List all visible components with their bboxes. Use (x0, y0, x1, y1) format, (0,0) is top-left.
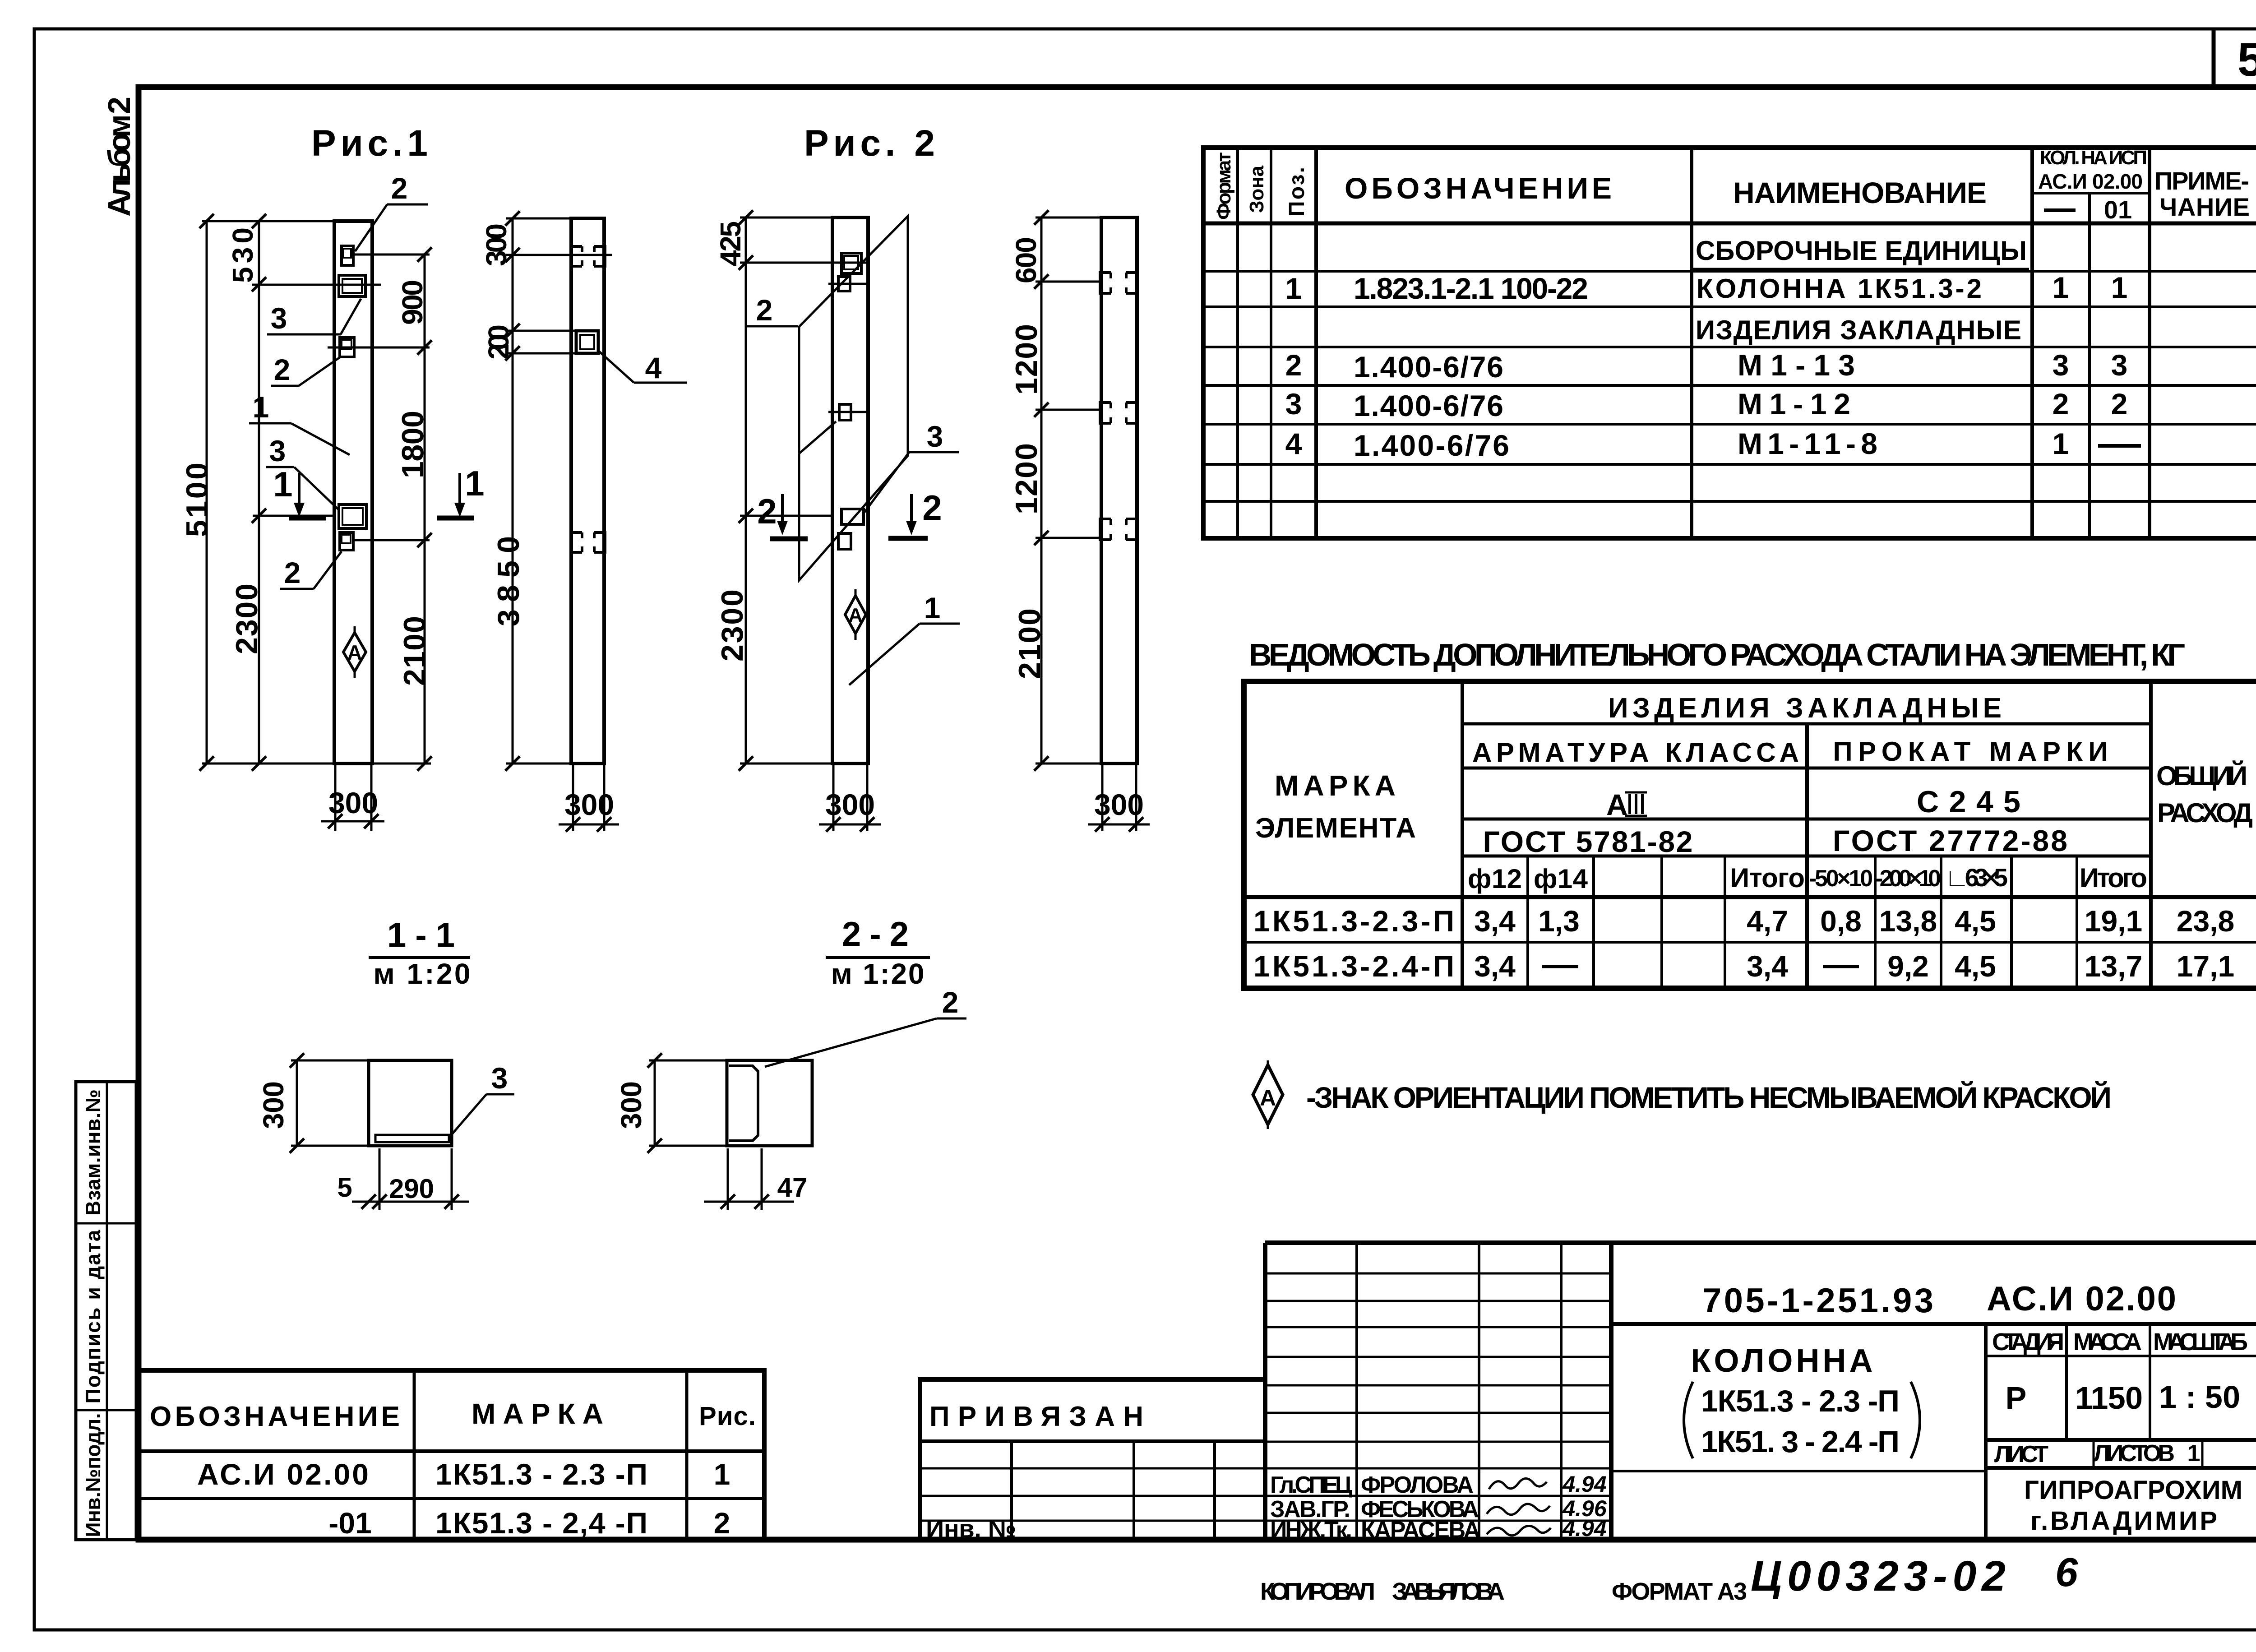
svg-text:300: 300 (564, 788, 614, 821)
fig1 side dim chain 300 200 3850 (480, 211, 526, 771)
svg-text:КАРАСЕВА: КАРАСЕВА (1361, 1517, 1480, 1543)
svg-text:КОПИРОВАЛ: КОПИРОВАЛ (1260, 1578, 1375, 1605)
title block stamp grid (1265, 1243, 2256, 1540)
svg-text:4.94: 4.94 (1562, 1472, 1606, 1497)
svg-text:ОБЩИЙ: ОБЩИЙ (2156, 761, 2247, 791)
section 1-1 square (369, 1060, 452, 1146)
svg-text:600: 600 (1010, 237, 1042, 283)
svg-text:ф12: ф12 (1468, 864, 1522, 894)
fig1 dim 5100 (180, 214, 214, 771)
section 2-2 title (826, 915, 930, 990)
binding table (920, 1379, 1265, 1543)
specification row 4 (1285, 427, 2141, 462)
fig1 extension lines (202, 221, 431, 764)
steel table frame (1244, 681, 2256, 988)
svg-text:2: 2 (284, 556, 301, 589)
fig1 side plate pair lower (571, 532, 605, 552)
svg-text:г.ВЛАДИМИР: г.ВЛАДИМИР (2030, 1506, 2220, 1536)
svg-text:1: 1 (465, 463, 484, 503)
svg-text:НАИМЕНОВАНИЕ: НАИМЕНОВАНИЕ (1733, 176, 1990, 209)
orientation note text (1306, 1080, 2112, 1114)
svg-text:Р: Р (2006, 1380, 2027, 1416)
section 2-2 dim 300 (615, 1053, 727, 1153)
svg-text:ГИПРОАГРОХИМ: ГИПРОАГРОХИМ (2024, 1476, 2245, 1505)
svg-text:ЭЛЕМЕНТА: ЭЛЕМЕНТА (1255, 813, 1419, 844)
svg-text:МАСШТАБ: МАСШТАБ (2153, 1328, 2248, 1356)
fig1 side extension lines (506, 218, 612, 764)
svg-text:-50×10: -50×10 (1809, 865, 1873, 892)
copied by line (1260, 1578, 1747, 1605)
fig1 bottom dim 300 (321, 764, 384, 831)
svg-text:1: 1 (1285, 272, 1302, 305)
svg-text:Рис.1: Рис.1 (311, 123, 428, 164)
section 1-1 leader 3 (449, 1061, 514, 1137)
steel table data row 2 (1253, 949, 2234, 983)
svg-text:ЧАНИЕ: ЧАНИЕ (2159, 193, 2250, 221)
fig2 side bottom dim 300 (1088, 764, 1150, 832)
section 2-2 square (727, 1060, 812, 1146)
svg-text:300: 300 (825, 788, 875, 821)
svg-text:Зона: Зона (1246, 165, 1268, 213)
title block sheet row (1986, 1440, 2256, 1468)
fig2 plate small top (828, 277, 868, 291)
svg-text:Формат: Формат (1213, 152, 1235, 220)
svg-text:530: 530 (227, 227, 259, 283)
svg-text:м 1:20: м 1:20 (831, 958, 925, 990)
svg-text:3,4: 3,4 (1747, 949, 1788, 983)
title block organization (2024, 1476, 2245, 1536)
svg-text:ФРОЛОВА: ФРОЛОВА (1361, 1472, 1474, 1498)
svg-text:17,1: 17,1 (2177, 949, 2234, 983)
svg-text:Альбом 2: Альбом 2 (102, 97, 137, 217)
svg-text:1: 1 (2111, 271, 2128, 304)
svg-text:1.400-6/76: 1.400-6/76 (1354, 429, 1509, 462)
fig1 side view column (571, 218, 604, 764)
fig2 leader 1 (849, 591, 960, 685)
fig1 title (311, 123, 428, 164)
svg-text:2-2: 2-2 (842, 915, 909, 953)
svg-text:1: 1 (2053, 427, 2069, 460)
svg-text:1,3: 1,3 (1538, 904, 1580, 938)
left margin strip (76, 1082, 136, 1540)
steel table subheaders (1468, 863, 2147, 894)
section 1-1 dim 300 (257, 1053, 369, 1153)
svg-text:01: 01 (2104, 195, 2132, 224)
svg-text:23,8: 23,8 (2177, 904, 2234, 938)
svg-text:ИЗДЕЛИЯ ЗАКЛАДНЫЕ: ИЗДЕЛИЯ ЗАКЛАДНЫЕ (1608, 693, 2005, 724)
svg-text:АРМАТУРА КЛАССА: АРМАТУРА КЛАССА (1472, 737, 1802, 768)
fig1 leader 3 top (267, 299, 361, 335)
fig2 dim 425 / 2300 chain (714, 210, 753, 771)
fig1 leader 2 lower (280, 551, 342, 589)
specification row assembly units (1693, 236, 2029, 269)
svg-text:13,8: 13,8 (1879, 904, 1937, 938)
svg-text:1: 1 (2187, 1440, 2201, 1467)
fig2 title (804, 123, 935, 164)
svg-text:1: 1 (714, 1458, 730, 1491)
inventory handwriting (1751, 1550, 2078, 1600)
fig2 plate 2 top (841, 253, 861, 273)
svg-text:А: А (347, 641, 362, 664)
specification row 1 column (1285, 271, 2128, 305)
svg-text:Инв. №: Инв. № (926, 1514, 1016, 1543)
fig1 leader 4 (599, 351, 687, 384)
steel table title (1249, 637, 2185, 672)
fig1 front column outline (334, 221, 372, 764)
svg-text:2: 2 (942, 986, 959, 1019)
svg-text:2: 2 (391, 171, 408, 205)
svg-text:1800: 1800 (396, 411, 430, 478)
section 1-1 title (369, 916, 471, 990)
svg-text:1К51.3 - 2,4 -П: 1К51.3 - 2,4 -П (435, 1506, 647, 1540)
title block signature row engineer (1270, 1516, 1607, 1543)
svg-text:1К51. 3 - 2.4 -П: 1К51. 3 - 2.4 -П (1701, 1425, 1900, 1459)
svg-text:Подпись и дата: Подпись и дата (81, 1230, 105, 1403)
section 2-2 leader 2 (765, 986, 966, 1067)
orientation note diamond (1253, 1060, 1283, 1129)
svg-text:ПРИМЕ-: ПРИМЕ- (2154, 167, 2249, 195)
fig2 front column outline (832, 217, 868, 764)
svg-text:1: 1 (2053, 271, 2069, 304)
album label (102, 97, 137, 217)
svg-text:А: А (848, 604, 863, 626)
svg-text:4: 4 (1285, 427, 1302, 460)
fig2 side dim chain 600 1200 1200 2100 (1009, 210, 1049, 771)
svg-text:705-1-251.93: 705-1-251.93 (1702, 1282, 1933, 1320)
svg-text:Итого: Итого (1730, 863, 1805, 893)
svg-text:300: 300 (615, 1081, 647, 1129)
title block signature row chief (1270, 1472, 1607, 1498)
svg-text:4.94: 4.94 (1562, 1516, 1606, 1541)
svg-text:1.400-6/76: 1.400-6/76 (1354, 389, 1503, 422)
svg-text:2: 2 (1285, 348, 1302, 382)
svg-text:ф14: ф14 (1534, 864, 1588, 894)
title block document number (1611, 1280, 2256, 1324)
svg-text:5: 5 (2238, 33, 2256, 86)
svg-text:∟63×5: ∟63×5 (1945, 863, 2008, 892)
svg-text:13,7: 13,7 (2085, 949, 2142, 983)
specification table headers (1213, 147, 2250, 224)
designation table bottom left (139, 1370, 764, 1540)
svg-text:ЛИСТОВ: ЛИСТОВ (2094, 1440, 2175, 1467)
fig2 plate wide at section (841, 509, 864, 524)
svg-text:1: 1 (253, 390, 269, 424)
svg-text:М1-12: М1-12 (1738, 387, 1850, 421)
svg-text:-ЗНАК ОРИЕНТАЦИИ ПОМЕТИТЬ НЕСМ: -ЗНАК ОРИЕНТАЦИИ ПОМЕТИТЬ НЕСМЫВАЕМОЙ КР… (1306, 1080, 2112, 1114)
fig2 section mark 2 right (888, 488, 942, 538)
svg-text:1200: 1200 (1009, 324, 1044, 395)
specification row embedded items (1696, 315, 2021, 345)
steel table data row 1 (1253, 904, 2234, 938)
svg-text:ИЗДЕЛИЯ ЗАКЛАДНЫЕ: ИЗДЕЛИЯ ЗАКЛАДНЫЕ (1696, 315, 2021, 345)
svg-text:19,1: 19,1 (2085, 904, 2142, 938)
svg-text:КОЛОННА 1К51.3-2: КОЛОННА 1К51.3-2 (1697, 273, 1982, 304)
svg-text:КОЛОННА: КОЛОННА (1691, 1343, 1878, 1379)
svg-text:3: 3 (271, 301, 287, 335)
svg-text:3: 3 (269, 434, 286, 467)
svg-text:2: 2 (756, 293, 773, 327)
svg-text:Гл.СПЕЦ: Гл.СПЕЦ (1270, 1472, 1352, 1498)
svg-text:1150: 1150 (2075, 1380, 2143, 1416)
svg-text:3: 3 (1285, 387, 1302, 421)
fig1 plate 3 lower (339, 504, 366, 528)
svg-text:5: 5 (337, 1172, 352, 1203)
fig2 side plate pair 1 (1100, 273, 1137, 293)
svg-text:1К51.3 - 2.3 -П: 1К51.3 - 2.3 -П (1701, 1384, 1900, 1418)
svg-text:Ц00323-02: Ц00323-02 (1751, 1552, 2006, 1600)
svg-text:3: 3 (2111, 348, 2128, 382)
fig2 side extension lines (1036, 217, 1137, 764)
svg-text:МАРКА: МАРКА (472, 1397, 607, 1430)
svg-text:ИНЖ.Тк.: ИНЖ.Тк. (1270, 1517, 1352, 1543)
svg-text:СТАДИЯ: СТАДИЯ (1992, 1328, 2064, 1356)
fig2 leader 3 (799, 420, 959, 512)
fig2 section mark 2 left (757, 491, 808, 539)
svg-text:-01: -01 (328, 1506, 371, 1540)
svg-text:9,2: 9,2 (1887, 949, 1929, 983)
specification row 3 (1285, 387, 2128, 422)
specification table frame (1203, 148, 2256, 538)
svg-text:425: 425 (714, 221, 747, 266)
svg-text:Рис. 2: Рис. 2 (804, 123, 935, 164)
fig1 plate 2 lower (340, 532, 353, 550)
svg-text:3,4: 3,4 (1474, 904, 1516, 938)
fig1 plate 2 top (342, 246, 353, 265)
svg-text:ГОСТ 27772-88: ГОСТ 27772-88 (1833, 824, 2067, 857)
svg-text:2: 2 (2111, 387, 2128, 421)
fig2 side plate pair 2 (1100, 403, 1137, 423)
fig1 plate 3 top (339, 275, 365, 296)
svg-text:200: 200 (482, 324, 515, 360)
svg-text:1: 1 (273, 464, 292, 504)
fig1 leader 2 middle (271, 353, 340, 386)
svg-text:1: 1 (924, 591, 941, 625)
svg-text:1.400-6/76: 1.400-6/76 (1354, 350, 1503, 384)
svg-text:2: 2 (714, 1506, 730, 1540)
svg-text:ЗАВЬЯЛОВА: ЗАВЬЯЛОВА (1392, 1578, 1505, 1605)
fig2 orientation diamond A (845, 589, 866, 640)
svg-text:900: 900 (396, 280, 429, 325)
section 1-1 bottom dims 5 and 290 (337, 1148, 469, 1210)
fig1 orientation diamond A (343, 626, 366, 678)
svg-text:ОБОЗНАЧЕНИЕ: ОБОЗНАЧЕНИЕ (150, 1401, 402, 1432)
fig2 bottom dim 300 (819, 764, 881, 832)
fig2 plate 3 middle (828, 404, 866, 420)
steel table A-III mark (1606, 788, 1647, 821)
fig1 dim 900 / 1800 / 2100 chain (396, 247, 432, 771)
svg-text:4,7: 4,7 (1747, 904, 1788, 938)
section 1-1 plate strip (375, 1135, 449, 1142)
svg-text:А: А (1260, 1085, 1276, 1111)
svg-text:300: 300 (257, 1081, 290, 1129)
svg-text:2: 2 (922, 488, 942, 528)
fig1 side bottom dim 300 (559, 764, 619, 832)
title block name cell (1611, 1324, 1986, 1540)
svg-text:3: 3 (491, 1061, 508, 1095)
svg-text:2100: 2100 (1012, 608, 1047, 679)
fig1 leader 3 lower (266, 434, 339, 510)
svg-text:2300: 2300 (230, 583, 264, 654)
fig1 section mark 1 right (437, 463, 485, 518)
section 2-2 channel plate (729, 1066, 758, 1141)
svg-text:4: 4 (645, 351, 662, 384)
svg-text:ВЕДОМОСТЬ ДОПОЛНИТЕЛЬНОГО РАСХ: ВЕДОМОСТЬ ДОПОЛНИТЕЛЬНОГО РАСХОДА СТАЛИ … (1249, 637, 2185, 672)
fig1 leader 1 (249, 390, 350, 455)
fig1 leader 2 top (355, 171, 428, 251)
svg-text:ФОРМАТ А3: ФОРМАТ А3 (1612, 1578, 1747, 1605)
svg-text:1.823.1-2.1 100-22: 1.823.1-2.1 100-22 (1354, 272, 1588, 305)
svg-text:ОБОЗНАЧЕНИЕ: ОБОЗНАЧЕНИЕ (1345, 171, 1615, 205)
svg-text:А: А (1606, 788, 1628, 821)
svg-text:300: 300 (328, 786, 378, 819)
svg-text:47: 47 (777, 1172, 808, 1203)
svg-text:3,4: 3,4 (1474, 949, 1516, 983)
svg-text:3: 3 (2053, 348, 2069, 382)
svg-text:3: 3 (927, 420, 943, 453)
svg-text:290: 290 (389, 1174, 434, 1204)
page number box 5 (2214, 29, 2256, 88)
fig2 plane parallelogram (799, 216, 908, 580)
svg-text:4,5: 4,5 (1955, 949, 1996, 983)
svg-text:Инв.№подл.: Инв.№подл. (81, 1413, 105, 1537)
fig1 plate 2 middle (340, 338, 354, 357)
specification row 2 (1285, 348, 2128, 384)
svg-text:ГОСТ 5781-82: ГОСТ 5781-82 (1483, 825, 1693, 858)
svg-text:СБОРОЧНЫЕ ЕДИНИЦЫ: СБОРОЧНЫЕ ЕДИНИЦЫ (1696, 236, 2027, 266)
svg-text:МАРКА: МАРКА (1275, 769, 1399, 802)
fig1 side plate 4 (576, 331, 598, 353)
svg-text:КОЛ. НА ИСП: КОЛ. НА ИСП (2040, 147, 2147, 169)
svg-text:АС.И 02.00: АС.И 02.00 (2038, 170, 2143, 193)
svg-text:МАССА: МАССА (2073, 1328, 2142, 1356)
fig2 side view column (1101, 217, 1137, 764)
svg-text:2100: 2100 (398, 616, 432, 686)
svg-text:АС.И 02.00: АС.И 02.00 (197, 1458, 369, 1491)
title block stage mass scale (1986, 1324, 2256, 1440)
fig2 leader 2 (745, 293, 798, 327)
svg-text:ПРОКАТ МАРКИ: ПРОКАТ МАРКИ (1833, 736, 2111, 767)
svg-text:1К51.3 - 2.3 -П: 1К51.3 - 2.3 -П (435, 1458, 647, 1491)
svg-text:Рис.: Рис. (699, 1402, 756, 1431)
svg-text:6: 6 (2055, 1550, 2078, 1595)
svg-text:1К51.3-2.3-П: 1К51.3-2.3-П (1253, 904, 1454, 938)
fig2 plate small below section (838, 533, 851, 549)
svg-text:м 1:20: м 1:20 (374, 958, 471, 990)
svg-text:2: 2 (2053, 387, 2069, 421)
svg-text:-200×10: -200×10 (1875, 865, 1941, 892)
svg-text:300: 300 (480, 223, 513, 266)
fig1 section mark 1 left (273, 464, 326, 518)
steel table headers (1255, 693, 2253, 858)
svg-text:Взам.инв.№: Взам.инв.№ (81, 1089, 105, 1216)
svg-text:Итого: Итого (2080, 863, 2147, 893)
svg-text:АС.И 02.00: АС.И 02.00 (1987, 1280, 2176, 1318)
fig1 dim 530 / 2300 chain (227, 214, 266, 771)
svg-text:2: 2 (274, 353, 291, 386)
fig2 extension lines (740, 217, 870, 764)
svg-text:1 : 50: 1 : 50 (2159, 1379, 2240, 1415)
fig2 side plate pair 3 (1100, 519, 1137, 540)
svg-text:0,8: 0,8 (1820, 904, 1862, 938)
svg-text:РАСХОД: РАСХОД (2157, 798, 2253, 828)
svg-text:2: 2 (757, 491, 777, 531)
svg-text:1-1: 1-1 (387, 916, 455, 954)
svg-text:1К51.3-2.4-П: 1К51.3-2.4-П (1253, 949, 1454, 983)
svg-text:4,5: 4,5 (1955, 904, 1996, 938)
svg-text:300: 300 (1094, 788, 1144, 821)
title block signature row group head (1270, 1496, 1607, 1522)
fig1 side plate pair top (571, 246, 605, 266)
svg-text:ЛИСТ: ЛИСТ (1994, 1441, 2048, 1467)
section 2-2 bottom dim 47 (704, 1148, 807, 1210)
